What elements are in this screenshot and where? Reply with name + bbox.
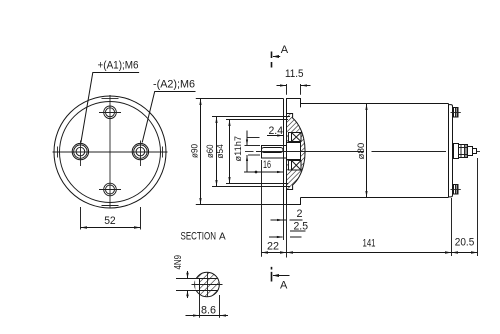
svg-text:ø80: ø80 <box>356 143 367 160</box>
horizontal center line <box>53 147 168 158</box>
vertical center line <box>102 95 119 209</box>
bottom mounting hole <box>99 183 121 196</box>
dimension 141 <box>287 238 452 254</box>
svg-text:-(A2);M6: -(A2);M6 <box>153 79 195 91</box>
extension line at flange face for 22/141 <box>284 205 287 258</box>
dimension 8.6 <box>186 291 229 318</box>
keyway flat notch <box>195 279 200 291</box>
svg-text:11.5: 11.5 <box>285 68 304 80</box>
svg-text:ø11h7: ø11h7 <box>233 136 243 162</box>
dimension 2.4 (flat end offset) <box>267 125 284 148</box>
svg-text:SECTION: SECTION <box>181 230 217 242</box>
terminal stud (right middle) <box>454 144 481 159</box>
section title <box>181 230 227 242</box>
shaft <box>262 146 287 159</box>
svg-text:+(A1);M6: +(A1);M6 <box>98 60 139 72</box>
label -(A2);M6 leader <box>142 79 195 143</box>
bearing seat strip lower <box>289 161 292 171</box>
section cut marker A (bottom) <box>272 267 290 291</box>
section cut marker A (top) <box>272 44 289 68</box>
shaft center line <box>245 151 446 153</box>
svg-text:8.6: 8.6 <box>201 304 216 316</box>
dimension o60 <box>205 117 290 187</box>
flange inner circle <box>60 102 161 203</box>
dimension 22 <box>262 241 287 254</box>
dimension o80 <box>356 104 368 198</box>
extension line at body rear for 141/20.5 <box>451 198 453 256</box>
extension line at terminal tip for 20.5 <box>477 158 479 256</box>
svg-text:A: A <box>219 231 226 242</box>
svg-text:52: 52 <box>104 215 116 227</box>
terminal A1 hole (left) <box>72 141 88 167</box>
dimension 16 (flat length) <box>244 159 284 175</box>
extension line at shaft tip for 22 <box>261 160 263 257</box>
terminal A2 hole (right) <box>132 141 148 167</box>
svg-text:16: 16 <box>263 159 271 171</box>
svg-text:ø60: ø60 <box>205 145 216 159</box>
dimension 11.5 <box>277 68 311 95</box>
bottom cover bolt <box>451 185 461 195</box>
svg-text:22: 22 <box>267 241 279 253</box>
top cover bolt <box>451 108 461 118</box>
dimension 20.5 <box>452 237 478 254</box>
rear end plate <box>449 105 453 197</box>
flange outer circle <box>54 96 166 208</box>
top mounting hole <box>99 106 121 119</box>
svg-text:20.5: 20.5 <box>455 237 475 249</box>
label +(A1);M6 leader <box>81 60 139 143</box>
svg-text:141: 141 <box>363 238 376 250</box>
svg-text:ø90: ø90 <box>189 144 200 158</box>
dimension 52 <box>81 207 141 230</box>
shaft key flat slot <box>262 148 284 153</box>
section circle center marks <box>192 272 223 297</box>
dimension o90 <box>189 99 289 205</box>
shaft section circle (hatched) <box>195 272 220 297</box>
dimension o11h7 <box>233 131 260 173</box>
keyway chord lines / 4N9 extension lines <box>176 279 218 291</box>
svg-text:4N9: 4N9 <box>172 255 184 270</box>
mounting flange plate (two vertical lines) <box>284 99 287 205</box>
svg-text:2.5: 2.5 <box>294 221 309 233</box>
svg-text:2.4: 2.4 <box>269 125 284 137</box>
dimension o54 <box>215 120 288 184</box>
flange top box <box>287 99 301 114</box>
svg-text:A: A <box>281 44 289 56</box>
flange bottom box <box>287 190 301 205</box>
bearing seat strip upper <box>289 133 292 142</box>
bearing inner sleeve hub <box>287 143 301 160</box>
svg-text:A: A <box>280 279 288 291</box>
motor body outline <box>301 104 449 198</box>
dimension 2.5 (flange plate) <box>269 221 308 239</box>
bearing bell housing (hatched) <box>287 114 306 190</box>
dimension 4N9 <box>172 255 189 298</box>
dimension 2 (flange lip) <box>271 208 303 221</box>
upper bearing (crossed box) <box>292 133 302 142</box>
lower bearing (crossed box) <box>292 161 302 171</box>
svg-text:2: 2 <box>297 208 303 220</box>
